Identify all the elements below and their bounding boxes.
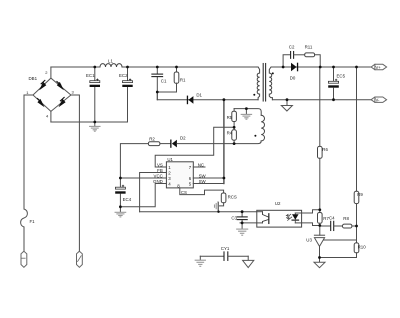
capacitor C3 leads: [241, 212, 243, 217]
ground symbol under C3: [237, 223, 248, 235]
resistor R6: [318, 146, 323, 209]
transformer core: [263, 64, 265, 102]
diode D2: [170, 140, 177, 148]
capacitor EC4 leads: [119, 178, 121, 187]
svg-text:R4: R4: [227, 131, 233, 136]
U1 pin6 SW wire: [193, 177, 224, 179]
wire compensation line: [320, 225, 331, 228]
svg-text:FB: FB: [157, 168, 163, 173]
aux winding coil: [261, 115, 264, 141]
ground symbol aux winding: [241, 109, 251, 120]
wire snubber left riser: [283, 55, 290, 67]
resistor R4: [232, 130, 237, 144]
ground symbol under EC1/EC2 bus: [90, 122, 100, 131]
capacitor EC2 leads: [127, 67, 129, 81]
connector P1 (AC L): [21, 251, 27, 267]
svg-text:VS: VS: [157, 163, 163, 168]
U1 pin5 SW wire: [193, 183, 224, 185]
wire C4 to R8: [334, 225, 342, 227]
wire bridge right to AC input: [71, 95, 80, 251]
wire clamp node to D1 line: [156, 92, 158, 100]
svg-text:VCC: VCC: [154, 174, 163, 179]
optocoupler U2 box: [257, 210, 302, 227]
capacitor C1 leads: [156, 67, 158, 74]
capacitor EC5 leads: [333, 67, 335, 81]
U1 pin8 CS wire: [180, 188, 224, 195]
wire bottom bus U3 to R10: [320, 257, 357, 259]
ground chassis secondary: [281, 98, 292, 111]
wire top bus right of L1: [122, 66, 257, 68]
svg-text:U2: U2: [275, 201, 281, 206]
wire U2 emitter to R7 node: [302, 223, 320, 226]
U2 LED: [292, 213, 299, 223]
wire U3 ref line: [324, 239, 357, 241]
capacitor CY1 plates: [224, 252, 228, 261]
svg-text:R1: R1: [180, 78, 186, 83]
diode D1: [187, 96, 194, 105]
connector V+: [371, 64, 387, 69]
svg-text:R2: R2: [149, 137, 155, 142]
svg-text:SW: SW: [199, 174, 207, 179]
ground symbol CY1 left: [195, 256, 205, 266]
svg-text:D0: D0: [290, 75, 296, 80]
capacitor CY1 right wire: [228, 255, 248, 257]
svg-text:R11: R11: [305, 44, 313, 49]
fuse F1: [21, 209, 28, 227]
svg-text:C4: C4: [329, 216, 335, 221]
svg-text:EC4: EC4: [123, 197, 132, 202]
wire bridge top lead: [50, 67, 52, 78]
shunt regulator U3: [314, 226, 324, 258]
aux phase dot: [254, 135, 256, 137]
svg-text:R10: R10: [358, 245, 367, 250]
resistor R10: [354, 243, 359, 258]
resistor R11: [305, 53, 321, 67]
wire C3 bottom line to opto: [240, 222, 257, 224]
svg-text:GND: GND: [153, 179, 163, 184]
U1 pin2 FB wire: [140, 173, 167, 212]
svg-text:U3: U3: [306, 238, 312, 243]
svg-text:DB1: DB1: [29, 76, 38, 81]
wire bridge bottom lead: [50, 111, 52, 122]
U1 pin4 GND wire: [120, 184, 166, 207]
U1 pin numbers: [168, 165, 191, 188]
capacitor EC1 leads: [94, 67, 96, 81]
transformer primary phase dot: [253, 94, 255, 96]
ground arrow at RCS: [215, 202, 219, 212]
svg-text:V-: V-: [376, 98, 381, 103]
bridge diode bottom-right: [59, 97, 66, 108]
svg-text:C3: C3: [231, 215, 237, 220]
capacitor EC2 plates: [122, 79, 132, 87]
capacitor CY1 left wire: [200, 255, 223, 257]
U2 phototransistor: [263, 212, 269, 224]
U1 pin3 VCC wire: [120, 177, 166, 179]
svg-text:EC2: EC2: [119, 73, 128, 78]
wire divider branch (V+ rail down to R9): [356, 67, 358, 191]
bridge rectifier DB1 outline: [33, 78, 71, 111]
svg-text:F1: F1: [30, 219, 36, 224]
bridge diode top-right: [56, 81, 64, 91]
resistor RCS: [219, 193, 226, 206]
wire top bus left of L1: [51, 66, 100, 68]
bridge diode bottom-left: [37, 98, 45, 108]
capacitor C3 plates: [237, 217, 247, 220]
svg-text:CS: CS: [181, 190, 187, 195]
U1 pin7 NC stub: [193, 166, 205, 168]
capacitor C1 plates: [152, 74, 163, 77]
capacitor C2: [291, 52, 294, 59]
transformer secondary winding: [269, 67, 272, 100]
wire D2 anode to aux bottom: [177, 143, 234, 145]
wire secondary top rail: [272, 66, 371, 68]
bridge diode top-left: [39, 80, 46, 91]
resistor R8: [343, 224, 357, 228]
svg-text:C2: C2: [289, 45, 295, 50]
U2 pins internal: [257, 211, 263, 213]
wire D1/primary line: [157, 99, 258, 101]
ground symbol under EC4: [115, 207, 126, 217]
svg-text:EC1: EC1: [86, 73, 95, 78]
transformer primary winding: [257, 67, 260, 100]
svg-text:D2: D2: [180, 136, 186, 141]
svg-text:R8: R8: [343, 216, 349, 221]
capacitor EC5 plates: [328, 79, 339, 88]
connector P2 (AC N): [77, 251, 83, 267]
svg-text:U1: U1: [167, 157, 173, 162]
svg-text:D1: D1: [196, 92, 202, 97]
IC U1 box: [166, 162, 193, 188]
U1 pin1 VS wire: [155, 127, 234, 167]
ground chassis under U3: [314, 258, 325, 268]
svg-text:R5: R5: [227, 115, 233, 120]
capacitor C4: [331, 221, 334, 230]
wire C2 to R11: [294, 54, 305, 56]
resistor R2: [148, 142, 160, 146]
wire drain vertical: [223, 100, 225, 184]
wire FB line to opto: [140, 211, 257, 213]
svg-text:CY1: CY1: [221, 246, 230, 251]
wire fuse to connector: [23, 227, 25, 251]
svg-text:EC5: EC5: [337, 74, 346, 79]
wire R2 D2 VCC feed: [120, 144, 148, 178]
wire R6 branch (V+ rail down to opto): [319, 67, 321, 146]
wire bridge left to AC input: [24, 95, 33, 209]
transformer secondary phase dot: [272, 72, 274, 74]
resistor R9: [354, 191, 359, 243]
aux winding loop top: [234, 109, 261, 116]
U2 light arrows: [286, 214, 291, 220]
wire U2 collector to R7 node: [302, 210, 320, 213]
resistor R1: [157, 67, 179, 92]
connector V-: [371, 97, 387, 102]
wire R2 to D2: [160, 143, 170, 145]
wire primary ground bus: [51, 121, 128, 123]
svg-text:SW: SW: [199, 179, 207, 184]
aux winding loop bottom: [234, 141, 261, 144]
svg-text:NC: NC: [198, 163, 204, 168]
svg-text:V+: V+: [376, 65, 382, 70]
svg-text:C1: C1: [161, 79, 167, 84]
inductor L1: [100, 64, 122, 67]
ground chassis CY1 right: [243, 256, 254, 267]
svg-text:L1: L1: [108, 59, 113, 64]
resistor R5: [232, 109, 237, 130]
svg-text:R9: R9: [357, 192, 363, 197]
svg-text:R6: R6: [322, 147, 328, 152]
wire secondary bottom rail: [272, 99, 371, 101]
diode D0: [291, 63, 298, 72]
svg-text:RCS: RCS: [228, 194, 237, 199]
resistor R7: [318, 210, 323, 226]
capacitor EC4 plates: [115, 185, 125, 194]
capacitor EC1 plates: [90, 79, 100, 87]
